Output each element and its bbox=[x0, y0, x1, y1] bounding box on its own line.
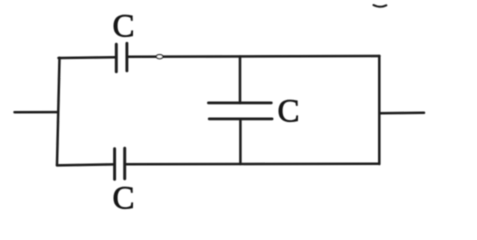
wire top segment right bbox=[128, 55, 379, 58]
stray mark bbox=[374, 5, 387, 7]
svg-text:C: C bbox=[277, 94, 299, 130]
wire middle branch top bbox=[239, 57, 242, 104]
wire right lead bbox=[380, 112, 424, 115]
svg-text:C: C bbox=[112, 9, 134, 45]
wire right vertical bbox=[378, 56, 381, 164]
wire top segment left bbox=[59, 56, 116, 59]
capacitor C1 top plates bbox=[116, 43, 127, 71]
wire left vertical bbox=[57, 58, 60, 166]
wire left lead bbox=[15, 111, 58, 114]
node bubble on top wire bbox=[156, 55, 163, 59]
wire bottom segment left bbox=[57, 164, 113, 165]
capacitor C2 middle plates bbox=[208, 103, 272, 119]
capacitor C3 bottom plates bbox=[115, 148, 125, 179]
wire bottom segment right bbox=[126, 162, 379, 165]
wire middle branch bottom bbox=[239, 120, 242, 165]
svg-text:C: C bbox=[112, 181, 134, 217]
